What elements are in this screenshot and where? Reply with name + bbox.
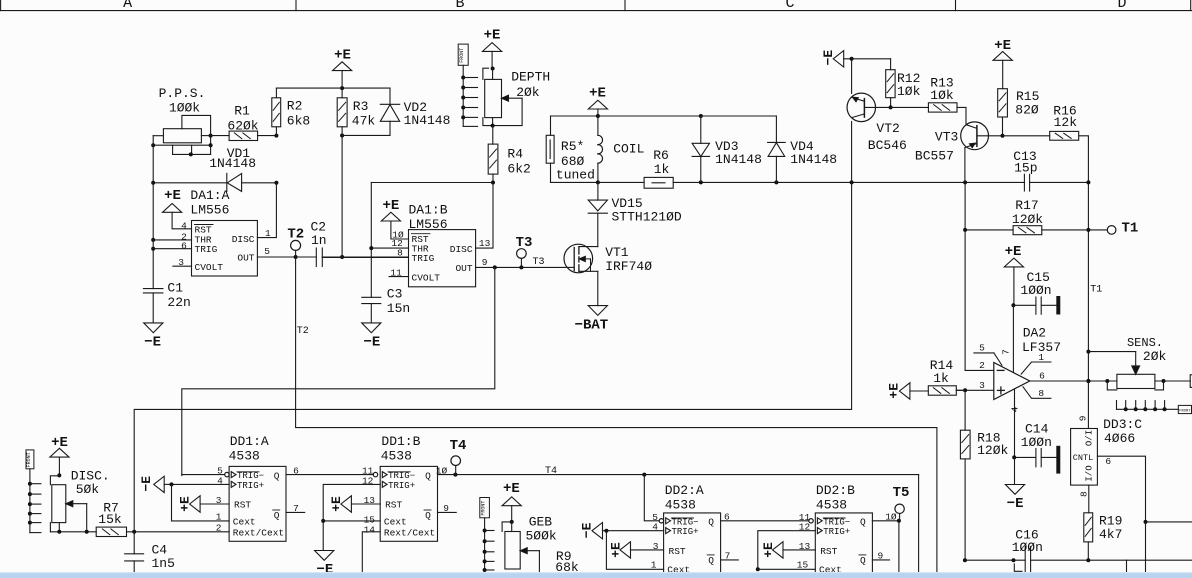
svg-text:1: 1: [265, 228, 271, 239]
wire coil box top: [551, 114, 777, 118]
svg-text:R4: R4: [507, 147, 523, 162]
svg-text:TRIG−: TRIG−: [388, 471, 415, 481]
svg-text:47k: 47k: [352, 113, 376, 128]
svg-text:IRF74Ø: IRF74Ø: [605, 259, 652, 274]
svg-text:RST: RST: [234, 500, 251, 511]
svg-text:22n: 22n: [167, 295, 190, 310]
svg-text:R6: R6: [653, 148, 669, 163]
svg-text:T4: T4: [450, 438, 467, 454]
svg-text:+E: +E: [164, 188, 181, 204]
timer DA1:B LM556: [322, 183, 493, 287]
+E supply (DD1:B RST): [329, 496, 380, 512]
transistor VT3 BC557: [915, 122, 1003, 182]
svg-text:5: 5: [979, 343, 985, 354]
diode VD3 1N4148: [692, 116, 762, 182]
svg-text:3: 3: [653, 541, 659, 552]
svg-text:3: 3: [178, 257, 184, 268]
svg-text:15k: 15k: [98, 512, 122, 527]
monostable DD2:B 4538: [756, 483, 901, 575]
svg-text:STTH121ØD: STTH121ØD: [612, 210, 682, 225]
svg-text:7: 7: [293, 503, 299, 514]
svg-text:GEB: GEB: [529, 515, 553, 530]
svg-text:LM556: LM556: [190, 202, 229, 217]
svg-text:1k: 1k: [933, 371, 949, 386]
svg-text:FRONT: FRONT: [1179, 410, 1191, 414]
svg-text:Rext/Cext: Rext/Cext: [233, 527, 284, 538]
-E supply (VT2): [821, 50, 891, 67]
+E supply (DISC): [50, 435, 69, 477]
svg-text:TRIG: TRIG: [195, 244, 218, 255]
svg-text:+E: +E: [382, 198, 399, 214]
svg-text:D: D: [1117, 0, 1126, 12]
connector FRONT (DEPTH): [458, 44, 477, 126]
svg-text:2: 2: [979, 360, 985, 371]
wire T4 to DD2:A: [644, 475, 659, 521]
svg-text:Q: Q: [708, 517, 714, 528]
-E supply (DD1:A): [139, 476, 174, 493]
svg-text:1N4148: 1N4148: [404, 113, 451, 128]
svg-text:6: 6: [724, 512, 730, 523]
svg-text:CVOLT: CVOLT: [195, 262, 224, 273]
svg-text:Q: Q: [860, 555, 866, 566]
timer DA1:A LM556: [153, 183, 276, 276]
svg-text:4Ø66: 4Ø66: [1104, 431, 1135, 446]
terminal T4: [450, 438, 557, 477]
svg-text:7: 7: [725, 550, 731, 561]
svg-text:O/I: O/I: [1085, 430, 1095, 446]
+E supply (DA1:A): [163, 188, 182, 212]
svg-text:FRONT: FRONT: [481, 501, 487, 516]
svg-text:+E: +E: [761, 542, 776, 558]
svg-text:RST: RST: [385, 500, 402, 511]
connector FRONT (GEB): [480, 498, 494, 574]
svg-text:Cext: Cext: [384, 517, 407, 528]
svg-text:B: B: [455, 0, 464, 12]
wire R3 to C2 node: [341, 136, 343, 258]
svg-text:5ØØk: 5ØØk: [526, 528, 557, 543]
transistor VT2 BC546: [847, 59, 907, 183]
svg-text:R17: R17: [1015, 198, 1038, 213]
svg-text:T3: T3: [533, 257, 545, 268]
resistor R15 820: [998, 89, 1040, 138]
svg-text:Q: Q: [425, 510, 431, 521]
svg-text:62Øk: 62Øk: [227, 118, 258, 133]
svg-text:DEPTH: DEPTH: [511, 70, 550, 85]
svg-text:9: 9: [1077, 415, 1088, 421]
svg-text:I/O: I/O: [1085, 465, 1095, 481]
svg-text:1: 1: [651, 559, 657, 570]
connector FRONT (DISC): [26, 450, 41, 533]
svg-text:1N4148: 1N4148: [209, 156, 256, 171]
svg-text:TRIG+: TRIG+: [823, 527, 850, 537]
svg-text:4: 4: [652, 522, 658, 533]
svg-text:DA1:A: DA1:A: [190, 188, 229, 203]
svg-text:T2: T2: [287, 226, 304, 242]
svg-text:+E: +E: [503, 481, 520, 497]
svg-text:12Øk: 12Øk: [1012, 212, 1043, 227]
wire node left vertical: [151, 136, 155, 289]
resistor R12 10k: [886, 59, 921, 110]
svg-text:7: 7: [1001, 349, 1012, 355]
svg-text:15: 15: [797, 559, 809, 570]
svg-text:−E: −E: [139, 476, 154, 492]
svg-text:12: 12: [799, 522, 811, 533]
svg-text:TRIG: TRIG: [412, 253, 435, 264]
diode VD2 1N4148: [342, 88, 450, 135]
svg-text:Rext/Cext: Rext/Cext: [384, 527, 435, 538]
svg-text:OUT: OUT: [237, 252, 254, 263]
svg-text:12k: 12k: [1054, 115, 1078, 130]
svg-text:T4: T4: [545, 466, 557, 477]
resistor R19 4k7: [1084, 485, 1123, 560]
svg-text:1ØØk: 1ØØk: [169, 100, 200, 115]
svg-text:RST: RST: [820, 546, 837, 557]
svg-text:R1: R1: [234, 104, 250, 119]
svg-text:P.P.S.: P.P.S.: [159, 86, 206, 101]
svg-text:Cext: Cext: [233, 517, 256, 528]
svg-text:TRIG−: TRIG−: [237, 471, 264, 481]
terminal T3: [516, 235, 545, 268]
svg-text:8: 8: [1079, 491, 1090, 497]
svg-text:C3: C3: [387, 287, 403, 302]
svg-text:6: 6: [1105, 456, 1111, 467]
svg-text:TRIG+: TRIG+: [388, 481, 415, 491]
svg-text:6: 6: [293, 465, 299, 476]
svg-text:1n: 1n: [311, 233, 327, 248]
svg-text:1N4148: 1N4148: [715, 152, 762, 167]
svg-text:8: 8: [1038, 388, 1044, 399]
svg-text:13: 13: [479, 238, 491, 249]
svg-text:4538: 4538: [816, 498, 847, 513]
capacitor C2 1n: [311, 220, 409, 267]
svg-text:6k2: 6k2: [507, 161, 530, 176]
svg-text:1Ø: 1Ø: [436, 466, 448, 477]
svg-text:1: 1: [1038, 352, 1044, 363]
svg-text:DA2: DA2: [1023, 326, 1046, 341]
capacitor C16 100n: [1012, 527, 1043, 572]
potentiometer SENS 20k: [1088, 336, 1190, 390]
-BAT supply: [575, 306, 609, 334]
wire coil box bottom rail: [551, 180, 1089, 184]
-E supply (C1): [144, 323, 163, 351]
+E supply (DA1:B): [381, 198, 400, 221]
capacitor C13 15p: [1013, 149, 1037, 191]
svg-text:14: 14: [364, 525, 376, 536]
svg-text:T5: T5: [893, 485, 910, 501]
svg-text:Q: Q: [274, 470, 280, 481]
wire DISC bracket: [369, 183, 493, 298]
wire rail to R7 node: [134, 182, 851, 531]
svg-text:1: 1: [216, 512, 222, 523]
svg-text:2Øk: 2Øk: [516, 85, 540, 100]
svg-text:OUT: OUT: [455, 263, 472, 274]
svg-text:13: 13: [364, 495, 376, 506]
diode VD15 STTH1210D: [588, 182, 682, 246]
svg-text:T1: T1: [1122, 220, 1139, 236]
svg-text:3: 3: [979, 380, 985, 391]
terminal T1: [1088, 220, 1138, 295]
svg-text:DD2:B: DD2:B: [816, 483, 855, 498]
svg-text:Q: Q: [274, 510, 280, 521]
svg-text:VT1: VT1: [605, 245, 629, 260]
svg-text:1ØØn: 1ØØn: [1020, 283, 1051, 298]
svg-text:VT3: VT3: [935, 130, 958, 145]
svg-text:−E: −E: [363, 335, 380, 351]
transistor VT1 IRF740: [564, 244, 652, 305]
svg-text:Q: Q: [425, 470, 431, 481]
inductor COIL: [598, 116, 645, 182]
svg-text:COIL: COIL: [613, 142, 644, 157]
capacitor C15 100n: [1013, 270, 1059, 314]
svg-text:6k8: 6k8: [287, 113, 310, 128]
svg-text:1ØØn: 1ØØn: [1012, 540, 1043, 555]
+E supply (DD2:B RST): [761, 542, 815, 558]
svg-text:4: 4: [181, 220, 187, 231]
resistor R18 120k: [960, 390, 1008, 560]
svg-text:15p: 15p: [1014, 161, 1037, 176]
svg-text:DD1:B: DD1:B: [381, 434, 420, 449]
monostable DD2:A 4538: [606, 483, 808, 575]
svg-text:1ØØn: 1ØØn: [1021, 435, 1052, 450]
svg-text:3: 3: [216, 495, 222, 506]
svg-text:DD2:A: DD2:A: [665, 483, 704, 498]
svg-text:+E: +E: [1005, 244, 1022, 260]
+E supply (DD2:A RST): [609, 542, 664, 558]
resistor R7 15k: [96, 501, 229, 537]
svg-text:TRIG−: TRIG−: [672, 517, 699, 527]
wire OUT-B to DD1:A TRIG: [182, 267, 495, 475]
svg-text:−E: −E: [144, 335, 161, 351]
svg-text:tuned: tuned: [556, 167, 595, 182]
svg-text:13: 13: [799, 541, 811, 552]
+E supply (R15): [993, 38, 1012, 89]
svg-text:4538: 4538: [665, 498, 696, 513]
svg-text:CVOLT: CVOLT: [412, 272, 441, 283]
svg-text:1N4148: 1N4148: [790, 152, 837, 167]
svg-text:1Øk: 1Øk: [897, 84, 921, 99]
svg-text:VT2: VT2: [876, 121, 899, 136]
svg-text:RST: RST: [669, 546, 686, 557]
svg-text:4: 4: [217, 475, 223, 486]
wire DA1:A OUT: [257, 255, 316, 259]
svg-text:82Ø: 82Ø: [1015, 103, 1039, 118]
svg-text:4: 4: [1010, 406, 1021, 412]
svg-text:2: 2: [216, 522, 222, 533]
resistor at right edge: [1190, 375, 1192, 388]
-E supply (pin4): [1005, 457, 1024, 512]
resistor R3 47k: [337, 88, 375, 137]
svg-text:SENS.: SENS.: [1127, 336, 1163, 350]
svg-text:4538: 4538: [381, 448, 412, 463]
svg-text:+E: +E: [589, 86, 606, 102]
svg-text:DD1:A: DD1:A: [230, 434, 269, 449]
resistor R2 6k8: [272, 88, 310, 136]
svg-text:9: 9: [482, 257, 488, 268]
monostable DD1:A 4538: [172, 434, 374, 541]
wire VT3 feedback vertical: [964, 182, 966, 370]
-E supply (C3): [362, 323, 381, 351]
diode VD4 1N4148: [768, 116, 838, 182]
svg-text:11: 11: [390, 267, 402, 278]
diode VD1 1N4148: [153, 146, 278, 192]
potentiometer DISC. 50k: [50, 468, 109, 534]
svg-text:Q: Q: [860, 517, 866, 528]
svg-text:5: 5: [264, 246, 270, 257]
resistor R6 1k: [644, 148, 673, 188]
svg-text:1Øk: 1Øk: [930, 88, 954, 103]
svg-text:+E: +E: [334, 48, 351, 64]
resistor R17 120k: [963, 198, 1088, 235]
connector FRONT (SENS): [1117, 401, 1192, 414]
svg-text:+E: +E: [484, 28, 501, 44]
svg-text:BC546: BC546: [868, 138, 907, 153]
svg-text:12: 12: [362, 475, 374, 486]
+E supply (coil): [588, 86, 607, 117]
svg-text:8: 8: [397, 247, 403, 258]
-E supply (DD2:A): [579, 522, 663, 538]
wire DA1:B OUT to gate: [476, 265, 565, 269]
svg-text:−E: −E: [1007, 496, 1024, 512]
resistor R13 10k: [891, 76, 966, 125]
op-amp DA2 LF357: [956, 305, 1117, 457]
resistor R1 620k: [211, 104, 279, 141]
-E supply (DD1:B): [315, 551, 334, 578]
svg-text:−BAT: −BAT: [575, 317, 609, 333]
svg-text:DISC: DISC: [450, 244, 473, 255]
resistor R5* 680 tuned: [546, 116, 595, 182]
svg-text:A: A: [123, 0, 132, 12]
svg-text:R3: R3: [353, 99, 369, 114]
svg-text:R5*: R5*: [561, 139, 584, 154]
+E supply (C15): [1004, 244, 1023, 307]
resistor R14 1k: [887, 358, 966, 399]
svg-text:1n5: 1n5: [152, 556, 175, 571]
terminal T2: [287, 226, 304, 257]
capacitor C4 1n5: [125, 532, 175, 573]
svg-text:5Øk: 5Øk: [76, 482, 100, 497]
capacitor C14 100n: [1012, 422, 1060, 474]
+E supply (GEB): [502, 481, 521, 524]
svg-text:C: C: [785, 0, 794, 12]
svg-text:BC557: BC557: [915, 148, 954, 163]
svg-text:+E: +E: [609, 542, 624, 558]
+E supply (top left): [333, 48, 352, 89]
svg-text:T1: T1: [1090, 285, 1102, 296]
svg-text:R2: R2: [287, 99, 303, 114]
analog switch DD3:C 4066: [1071, 415, 1192, 560]
svg-text:T2: T2: [297, 326, 309, 337]
+E supply (DEPTH): [483, 28, 502, 71]
capacitor C1 22n: [143, 281, 190, 323]
capacitor C3 15n: [362, 287, 410, 323]
terminal T5: [893, 485, 910, 521]
svg-text:4k7: 4k7: [1099, 527, 1122, 542]
svg-text:Q: Q: [708, 555, 714, 566]
svg-text:9: 9: [878, 550, 884, 561]
svg-text:15n: 15n: [387, 301, 410, 316]
svg-text:6: 6: [1039, 371, 1045, 382]
svg-text:4538: 4538: [229, 448, 260, 463]
svg-text:DA1:B: DA1:B: [409, 202, 448, 217]
svg-text:1Ø: 1Ø: [885, 512, 897, 523]
svg-text:TRIG−: TRIG−: [823, 517, 850, 527]
svg-text:TRIG+: TRIG+: [237, 481, 264, 491]
svg-text:T3: T3: [516, 235, 533, 251]
svg-text:2Øk: 2Øk: [1143, 349, 1167, 364]
svg-text:DISC: DISC: [232, 234, 255, 245]
potentiometer P.P.S. 100k: [151, 86, 212, 156]
svg-text:FRONT: FRONT: [26, 452, 32, 467]
svg-text:CNTL: CNTL: [1073, 453, 1093, 463]
svg-text:−E: −E: [821, 50, 836, 66]
resistor R9 68k: [555, 549, 579, 575]
wire +E rail: [276, 86, 390, 90]
resistor R4 6k2: [488, 126, 531, 185]
svg-text:C1: C1: [167, 281, 183, 296]
svg-text:12Øk: 12Øk: [977, 443, 1008, 458]
resistor R16 12k: [1003, 104, 1091, 429]
svg-text:FRONT: FRONT: [459, 48, 465, 63]
svg-text:1k: 1k: [654, 162, 670, 177]
monostable DD1:B 4538: [321, 434, 918, 573]
svg-text:DD3:C: DD3:C: [1103, 417, 1142, 432]
window bottom bar: [0, 572, 1192, 578]
wire bottom right rail: [963, 558, 1192, 573]
svg-text:9: 9: [443, 503, 449, 514]
potentiometer GEB 500k: [502, 515, 557, 573]
potentiometer DEPTH 20k: [483, 68, 550, 127]
svg-text:6: 6: [181, 240, 187, 251]
svg-text:TRIG+: TRIG+: [672, 527, 699, 537]
wire T2 long line: [296, 257, 937, 573]
+E supply (DD1:A RST): [178, 496, 230, 512]
